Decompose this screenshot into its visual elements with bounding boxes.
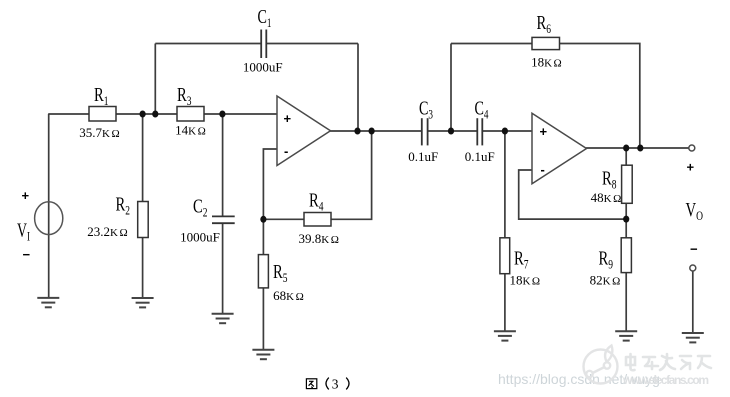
resistor R2 [138, 202, 149, 238]
svg-text:VO: VO [686, 199, 704, 223]
svg-text:+: + [284, 111, 292, 126]
wire: C1 right vertical drop to U1 output [357, 44, 359, 132]
ground for C2 [212, 314, 234, 323]
wire: C3 right to C4 left [427, 130, 476, 132]
wire: R2 vertical top [142, 114, 144, 202]
capacitor C4 plates [477, 118, 482, 145]
wire: C2 vertical top [222, 114, 224, 216]
wire: R4 right then up to output node [331, 131, 372, 219]
svg-text:R4: R4 [309, 190, 324, 214]
wire: source V_I vertical [48, 114, 50, 298]
wire: R5 top stub [262, 219, 264, 254]
wire: R1 right to R3 left [116, 113, 177, 115]
wire: C4 right to op-amp U2 + input [483, 130, 532, 132]
svg-text:R8: R8 [602, 168, 617, 192]
svg-text:3: 3 [332, 376, 339, 391]
svg-text:1000uF: 1000uF [180, 230, 220, 245]
svg-text:R5: R5 [273, 261, 288, 285]
junction node C1 left tap [152, 111, 158, 118]
svg-text:1000uF: 1000uF [243, 60, 283, 75]
wire: R7 vertical top [504, 131, 506, 238]
junction node U1 out / R4 [369, 128, 375, 135]
capacitor C3 plates [422, 118, 428, 145]
wire: R6 top horizontal left [451, 43, 532, 45]
wire: R6 left vertical riser [450, 44, 452, 132]
svg-text:48KΩ: 48KΩ [591, 190, 622, 205]
svg-text:35.7KΩ: 35.7KΩ [79, 125, 119, 140]
svg-text:18KΩ: 18KΩ [509, 273, 540, 288]
svg-text:C1: C1 [258, 6, 272, 30]
svg-text:0.1uF: 0.1uF [408, 149, 438, 164]
caption figure 3: hand-drawn CJK "tu" glyph [306, 379, 316, 389]
svg-text:82KΩ: 82KΩ [590, 273, 621, 288]
caption fullwidth parentheses and digit 3 [326, 378, 349, 390]
voltage source VI circle [35, 202, 63, 235]
svg-text:C2: C2 [193, 196, 208, 220]
wire: node to R4 left (y=219.3) [263, 218, 304, 220]
wire: output negative terminal to ground [692, 271, 694, 333]
svg-text:0.1uF: 0.1uF [465, 149, 495, 164]
svg-text:C4: C4 [475, 98, 489, 122]
wire: C1 left vertical riser [154, 44, 156, 115]
svg-text:39.8KΩ: 39.8KΩ [299, 231, 339, 246]
wire: R8 top stub [625, 148, 627, 165]
junction node C4/R7 [502, 128, 508, 135]
ground for R9 [615, 331, 637, 340]
svg-text:www.elecfans.com: www.elecfans.com [622, 373, 709, 387]
wire: R9 bottom to ground [625, 273, 627, 332]
wire: R7 bottom to ground [504, 274, 506, 332]
svg-text:R2: R2 [116, 194, 131, 218]
ground for R5 [252, 350, 274, 359]
resistor R1 [89, 107, 116, 122]
resistor R9 [621, 238, 631, 273]
svg-text:−: − [23, 247, 31, 262]
junction node U2 out / R8 [623, 145, 629, 152]
wire: U2 inverting feedback loop [519, 170, 627, 219]
svg-text:R9: R9 [599, 248, 614, 272]
resistor R3 [177, 107, 204, 122]
resistor R5 [258, 255, 268, 288]
svg-text:C3: C3 [419, 98, 433, 122]
ground for VI [37, 298, 59, 307]
junction node R3/C2 [219, 111, 225, 118]
svg-text:-: - [541, 162, 545, 177]
wire: C2 vertical bottom to ground [222, 223, 224, 314]
op-amp U1 [277, 96, 331, 166]
svg-text:23.2KΩ: 23.2KΩ [87, 224, 127, 239]
wire: source top to R1 left (y=114) [48, 113, 89, 115]
wire: R6 top horizontal right, drop to U2 output [560, 44, 640, 149]
capacitor C2 plates [212, 216, 235, 223]
ground for R2 [132, 298, 154, 307]
wire: C1 top horizontal left of plates [155, 43, 260, 45]
svg-text:−: − [690, 242, 698, 257]
watermark elecfans brand characters (stylized strokes) [626, 354, 711, 370]
svg-text:R3: R3 [177, 84, 192, 108]
svg-text:+: + [22, 188, 30, 203]
wire: U1 inverting input stub [263, 149, 277, 219]
capacitor C1 plates [261, 30, 266, 59]
svg-text:14KΩ: 14KΩ [175, 123, 206, 138]
junction node R1/R2 [140, 111, 146, 118]
wire: U1 output to C3 [330, 130, 421, 132]
resistor R8 [622, 165, 633, 203]
resistor R4 [304, 213, 331, 227]
wire: U2 output to terminal [586, 147, 689, 149]
junction node U2 out / R6 [637, 145, 643, 152]
wire: R8 bottom stub [625, 203, 627, 219]
wire: R9 top stub [625, 219, 627, 238]
svg-text:-: - [284, 144, 288, 159]
watermark elecfans logo circle [584, 346, 618, 384]
op-amp U2 [532, 113, 587, 184]
svg-text:18KΩ: 18KΩ [531, 55, 562, 70]
svg-text:+: + [687, 160, 695, 175]
svg-text:+: + [540, 124, 548, 139]
svg-text:68KΩ: 68KΩ [273, 288, 304, 303]
output terminal minus circle [690, 265, 696, 271]
wire: C1 top horizontal right of plates [266, 43, 358, 45]
wire: R5 bottom to ground [262, 288, 264, 350]
resistor R7 [500, 238, 510, 274]
svg-text:R7: R7 [514, 248, 529, 272]
junction node R8/R9 feedback [623, 216, 629, 223]
junction node R4/R5 feedback [260, 216, 266, 223]
svg-text:R1: R1 [94, 84, 109, 108]
ground for R7 [494, 331, 516, 340]
resistor R6 [532, 37, 560, 49]
ground for output terminal [682, 333, 704, 342]
svg-text:R6: R6 [537, 12, 552, 36]
output terminal plus circle [689, 145, 695, 151]
wire: R2 vertical bottom to ground [142, 238, 144, 299]
junction node U1 out / C1 [354, 128, 360, 135]
wire: R3 right to op-amp U1 + input [204, 113, 277, 115]
junction node C3/C4 R6 tap [448, 128, 454, 135]
svg-text:VI: VI [17, 220, 30, 244]
